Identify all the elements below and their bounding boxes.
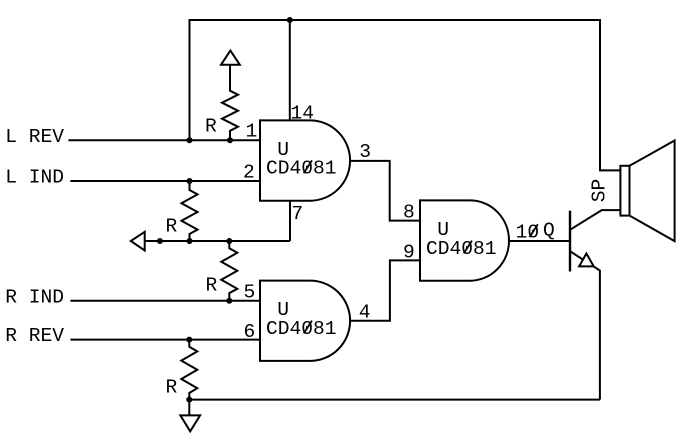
svg-text:L REV: L REV <box>5 126 64 148</box>
wire R REV input <box>70 339 260 341</box>
svg-text:CD4081: CD4081 <box>266 158 337 180</box>
ground arrow down <box>180 415 200 431</box>
svg-text:10: 10 <box>516 222 540 244</box>
ground arrow left <box>131 232 145 251</box>
svg-text:3: 3 <box>359 141 371 163</box>
svg-text:4: 4 <box>359 302 371 324</box>
transistor Q collector <box>570 210 620 230</box>
wire L IND input <box>70 180 260 182</box>
slash zero label 10 <box>530 224 538 237</box>
svg-text:6: 6 <box>244 321 256 343</box>
junction top rail <box>287 17 293 23</box>
junction L IND / R2 <box>187 178 193 184</box>
svg-text:9: 9 <box>403 241 415 263</box>
svg-text:SP: SP <box>589 179 611 203</box>
wire pin 14 <box>289 20 291 121</box>
slash zero U1 <box>304 160 312 173</box>
junction gnd a <box>157 238 163 244</box>
junction R IND / R3 <box>226 298 232 304</box>
svg-text:5: 5 <box>244 282 256 304</box>
svg-text:2: 2 <box>243 161 255 183</box>
svg-text:R: R <box>205 116 217 138</box>
wire output 10 to base <box>509 240 570 242</box>
speaker SP cone <box>630 141 675 242</box>
resistor R2 <box>182 181 198 241</box>
svg-text:7: 7 <box>291 203 303 225</box>
wire net output 4 to pin 9 <box>350 260 420 320</box>
svg-text:CD4081: CD4081 <box>266 318 337 340</box>
slash zero U3 <box>464 241 472 254</box>
svg-text:8: 8 <box>403 202 415 224</box>
wire pin 7 <box>289 200 291 241</box>
wire L REV input <box>68 139 260 141</box>
svg-text:L IND: L IND <box>5 167 64 189</box>
power arrow VDD <box>221 51 240 65</box>
junction L REV / R1 <box>227 137 233 143</box>
junction R REV / R4 <box>186 337 192 343</box>
wire R IND input <box>70 300 260 302</box>
transistor Q emitter <box>570 251 600 399</box>
svg-text:Q: Q <box>543 219 555 241</box>
junction gnd b <box>187 238 193 244</box>
resistor R3 <box>221 241 237 301</box>
speaker SP driver <box>620 166 629 216</box>
wire VDD top rail <box>190 20 621 170</box>
ground lead bottom <box>188 400 190 416</box>
slash zero U2 <box>304 321 312 334</box>
junction L REV / rail <box>187 137 193 143</box>
gate U1 CD4081 <box>260 120 350 200</box>
svg-text:R: R <box>166 216 178 238</box>
svg-text:CD4081: CD4081 <box>426 238 497 260</box>
junction gnd c <box>226 238 232 244</box>
resistor R1 pull-up <box>222 65 238 141</box>
resistor R4 <box>181 340 197 400</box>
junction bottom rail / gnd <box>186 397 192 403</box>
transistor Q emitter arrow <box>579 254 594 267</box>
wire ground mid <box>145 240 290 242</box>
svg-text:R IND: R IND <box>5 286 64 308</box>
svg-text:R: R <box>166 376 178 398</box>
gate U3 CD4081 <box>420 200 509 280</box>
svg-text:1: 1 <box>246 121 258 143</box>
svg-text:R REV: R REV <box>5 325 64 347</box>
transistor Q base bar <box>569 211 571 272</box>
wire bottom rail <box>189 399 600 401</box>
gate U2 CD4081 <box>260 281 350 361</box>
svg-text:R: R <box>206 275 218 297</box>
wire net output 3 to pin 8 <box>350 161 420 221</box>
